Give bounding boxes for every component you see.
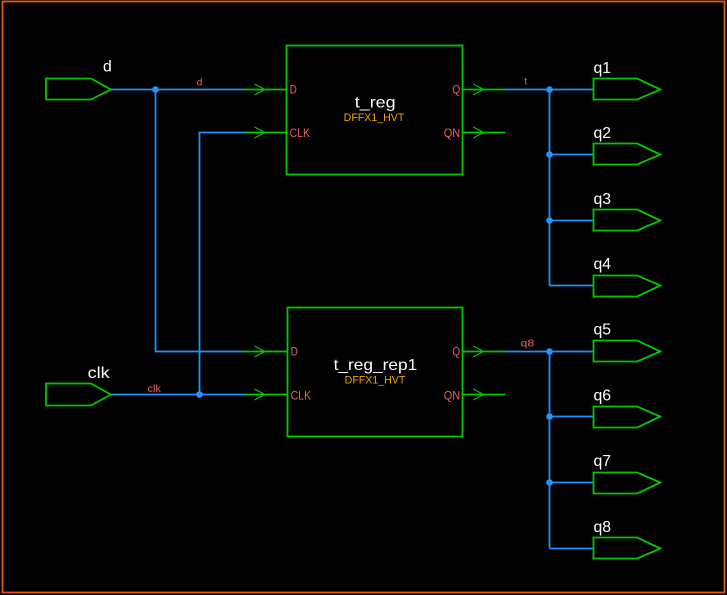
svg-text:clk: clk xyxy=(148,383,162,395)
svg-text:QN: QN xyxy=(444,390,461,402)
svg-text:d: d xyxy=(197,77,203,88)
arrow out U1.QN xyxy=(473,127,483,138)
svg-text:q5: q5 xyxy=(594,322,612,339)
junction dot t/q3 xyxy=(546,217,553,224)
input port clk xyxy=(46,384,111,406)
junction dot q8/q5 xyxy=(546,348,553,355)
svg-text:q3: q3 xyxy=(594,191,612,208)
wire net d horizontal xyxy=(111,89,244,91)
svg-text:q4: q4 xyxy=(594,256,612,273)
pin stub U2.CLK xyxy=(244,394,288,396)
pin stub U1.D xyxy=(244,89,287,91)
svg-text:d: d xyxy=(103,59,112,76)
arrow into U2.CLK xyxy=(255,389,265,400)
wire net t trunk xyxy=(506,90,550,286)
svg-text:CLK: CLK xyxy=(290,128,311,140)
svg-text:D: D xyxy=(291,347,298,359)
svg-text:CLK: CLK xyxy=(291,390,312,402)
junction dot net d xyxy=(152,86,159,93)
arrow into U1.D xyxy=(255,84,265,95)
wire net clk vertical branch to U1.CLK xyxy=(200,133,244,395)
junction dot t/q2 xyxy=(546,151,553,158)
junction dot q8/q6 xyxy=(546,413,553,420)
svg-text:QN: QN xyxy=(444,128,461,140)
junction dot q8/q7 xyxy=(546,479,553,486)
svg-text:q8: q8 xyxy=(521,338,535,350)
arrow into U1.CLK xyxy=(255,127,265,138)
wire net t branch to q3 xyxy=(550,220,594,222)
svg-text:q6: q6 xyxy=(594,387,612,404)
output port q3 xyxy=(594,210,661,231)
svg-text:Q: Q xyxy=(452,84,460,96)
pin stub U2.Q xyxy=(463,351,506,353)
arrow out U2.Q xyxy=(473,346,483,357)
svg-text:q1: q1 xyxy=(594,60,612,77)
arrow into U2.D xyxy=(255,346,265,357)
output port q1 xyxy=(594,79,661,100)
svg-text:clk: clk xyxy=(88,365,110,382)
wire net q8 branch to q6 xyxy=(550,416,594,418)
wire net q8 branch to q8 xyxy=(550,548,594,550)
wire net q8 branch to q5 xyxy=(550,351,594,353)
input port d xyxy=(46,79,111,100)
flip-flop U1 t_reg body xyxy=(287,46,463,175)
svg-text:DFFX1_HVT: DFFX1_HVT xyxy=(344,112,405,124)
wire net q8 trunk xyxy=(506,352,550,549)
wire net q8 branch to q7 xyxy=(550,482,594,484)
flip-flop U2 t_reg_rep1 body xyxy=(288,308,463,437)
svg-text:D: D xyxy=(290,84,297,96)
pin stub U2.QN xyxy=(463,394,506,396)
output port q8 xyxy=(594,538,661,559)
pin stub U2.D xyxy=(244,351,288,353)
wire net t branch to q2 xyxy=(550,154,594,156)
svg-text:Q: Q xyxy=(452,347,460,359)
wire net clk horizontal xyxy=(111,394,244,396)
svg-text:t_reg: t_reg xyxy=(355,94,396,111)
svg-text:DFFX1_HVT: DFFX1_HVT xyxy=(345,375,406,387)
svg-text:t_reg_rep1: t_reg_rep1 xyxy=(334,357,418,374)
svg-text:q2: q2 xyxy=(594,125,612,142)
output port q5 xyxy=(594,341,661,362)
output port q7 xyxy=(594,473,661,494)
pin stub U1.CLK xyxy=(244,132,287,134)
wire net t branch to q1 xyxy=(550,89,594,91)
svg-text:t: t xyxy=(524,77,527,88)
junction dot t/q1 xyxy=(546,86,553,93)
junction dot net clk xyxy=(196,391,203,398)
arrow out U1.Q xyxy=(473,84,483,95)
svg-text:q7: q7 xyxy=(594,453,612,470)
svg-text:q8: q8 xyxy=(594,519,612,536)
arrow out U2.QN xyxy=(473,389,483,400)
output port q6 xyxy=(594,407,661,428)
wire net t branch to q4 xyxy=(550,285,594,287)
wire net d vertical branch to U2.D xyxy=(156,90,244,352)
output port q4 xyxy=(594,276,661,297)
pin stub U1.Q xyxy=(463,89,506,91)
pin stub U1.QN xyxy=(463,132,506,134)
output port q2 xyxy=(594,144,661,165)
